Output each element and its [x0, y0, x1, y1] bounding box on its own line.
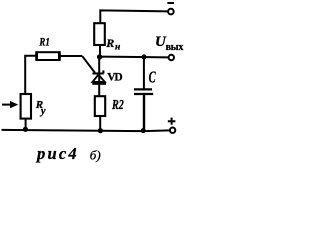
wire: diagonal from R1 output down to VD cathode — [82, 56, 95, 73]
svg-text:R1: R1 — [39, 37, 50, 50]
wire: R2 to bottom rail — [99, 116, 101, 131]
svg-text:R2: R2 — [111, 96, 124, 112]
resistor R1 — [37, 52, 60, 60]
wire: left branch (corner at R1 input, down to Ry) — [25, 56, 35, 94]
wire: capacitor tap down to C — [143, 57, 145, 89]
svg-text:R: R — [105, 36, 114, 50]
terminal + (bottom right) — [170, 128, 175, 133]
capacitor C — [134, 88, 152, 90]
bottom rail wire — [2, 130, 170, 131]
wire: Ry to bottom rail — [25, 119, 27, 131]
svg-text:VD: VD — [107, 71, 122, 83]
wire: Rn top up and right to negative terminal — [100, 10, 168, 23]
junction: node A (Rn / R1 / VD / output) — [97, 54, 102, 59]
wire: VD anode to R2 — [98, 84, 100, 97]
zener diode VD — [92, 70, 106, 84]
svg-text:у: у — [39, 106, 46, 117]
resistor Ry — [21, 94, 31, 119]
wire: Rn bottom to node — [99, 45, 101, 57]
svg-text:C: C — [149, 68, 157, 86]
terminal − (top right) — [168, 9, 174, 15]
svg-text:б): б) — [90, 148, 101, 163]
wire: node to output terminal — [100, 56, 169, 59]
wire: R1 output to node — [61, 55, 83, 57]
control arrow into Ry — [2, 104, 11, 106]
junction: capacitor tap — [142, 54, 147, 59]
wire: node down to VD cathode — [98, 57, 100, 74]
label − — [167, 2, 174, 4]
resistor R2 — [95, 96, 105, 116]
junction: C / bottom rail — [141, 128, 146, 133]
svg-text:вых: вых — [166, 42, 184, 53]
junction: Ry / bottom rail — [23, 127, 28, 132]
wire: C to bottom rail — [143, 95, 145, 131]
junction: R2 / bottom rail — [98, 128, 103, 133]
svg-text:рис4: рис4 — [35, 144, 79, 163]
svg-text:н: н — [115, 43, 120, 53]
resistor Rn — [94, 23, 105, 45]
terminal Uvyh — [169, 55, 174, 60]
label + — [168, 118, 176, 125]
